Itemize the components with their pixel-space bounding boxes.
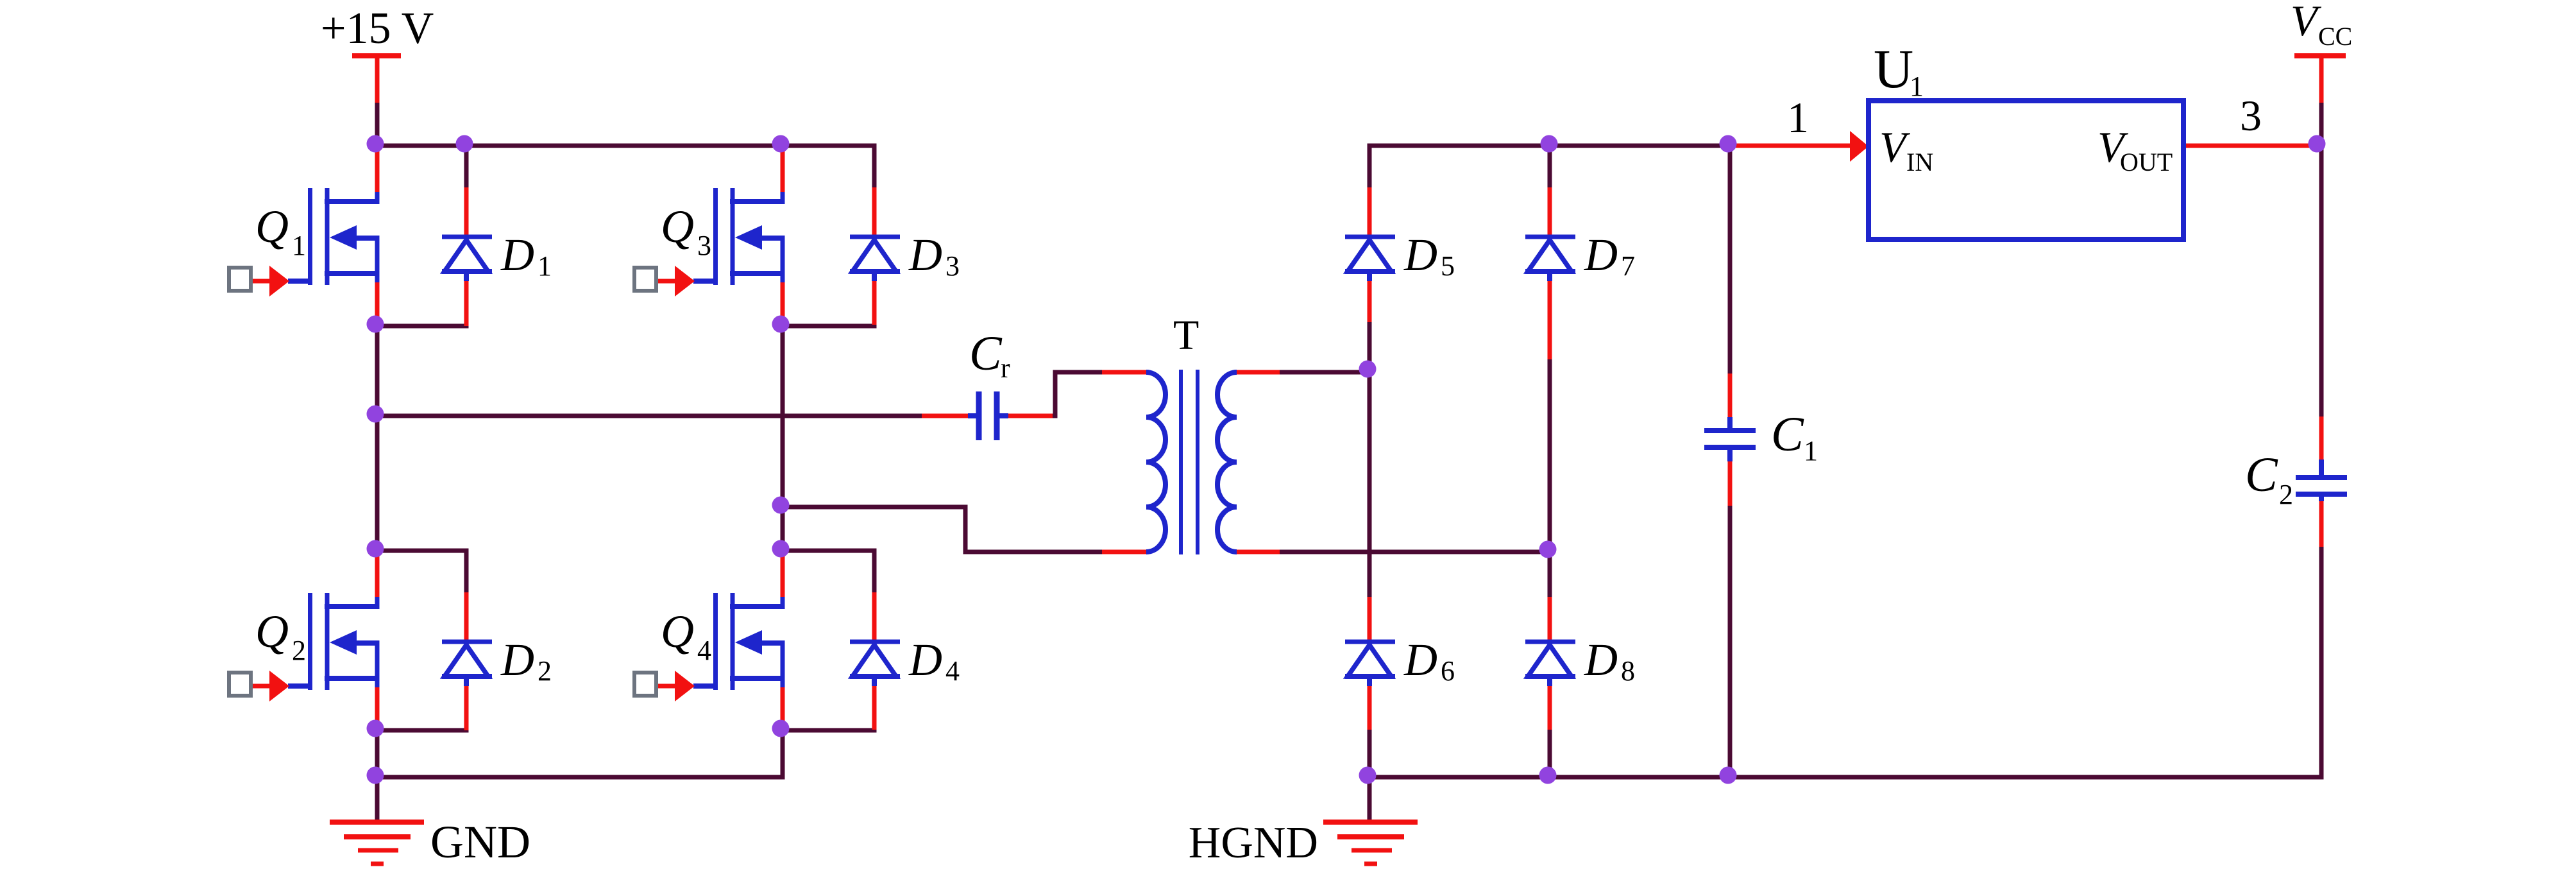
svg-text:D: D — [1584, 229, 1618, 280]
svg-text:Q: Q — [661, 201, 694, 252]
svg-text:6: 6 — [1441, 655, 1455, 687]
svg-text:OUT: OUT — [2120, 148, 2173, 176]
svg-text:1: 1 — [292, 230, 306, 261]
svg-text:Q: Q — [255, 201, 289, 252]
svg-text:D: D — [500, 634, 534, 685]
svg-text:2: 2 — [2279, 479, 2293, 510]
svg-text:1: 1 — [1787, 93, 1809, 142]
svg-text:3: 3 — [945, 250, 960, 282]
svg-text:D: D — [500, 229, 534, 280]
svg-text:GND: GND — [430, 816, 530, 868]
svg-text:D: D — [908, 634, 942, 685]
svg-text:8: 8 — [1621, 655, 1635, 687]
svg-text:Q: Q — [255, 606, 289, 657]
svg-text:D: D — [908, 229, 942, 280]
svg-text:C: C — [969, 327, 1003, 381]
svg-text:2: 2 — [292, 635, 306, 666]
svg-text:C: C — [2245, 448, 2278, 502]
svg-text:D: D — [1584, 634, 1618, 685]
svg-text:+15 V: +15 V — [321, 4, 434, 53]
svg-text:3: 3 — [2240, 91, 2262, 140]
svg-text:D: D — [1403, 229, 1437, 280]
svg-text:IN: IN — [1906, 148, 1933, 176]
svg-text:U: U — [1874, 38, 1913, 99]
svg-text:HGND: HGND — [1189, 818, 1318, 868]
svg-text:7: 7 — [1621, 250, 1635, 282]
svg-text:4: 4 — [945, 655, 960, 687]
svg-text:D: D — [1403, 634, 1437, 685]
svg-text:5: 5 — [1441, 250, 1455, 282]
svg-text:CC: CC — [2318, 22, 2352, 51]
svg-text:1: 1 — [1804, 435, 1818, 467]
svg-text:C: C — [1771, 408, 1804, 461]
svg-text:1: 1 — [538, 250, 552, 282]
svg-text:Q: Q — [661, 606, 694, 657]
svg-text:T: T — [1173, 312, 1199, 359]
svg-text:r: r — [1001, 352, 1010, 384]
svg-text:1: 1 — [1910, 71, 1924, 102]
svg-text:4: 4 — [697, 635, 711, 666]
svg-text:2: 2 — [538, 655, 552, 687]
svg-text:3: 3 — [697, 230, 711, 261]
